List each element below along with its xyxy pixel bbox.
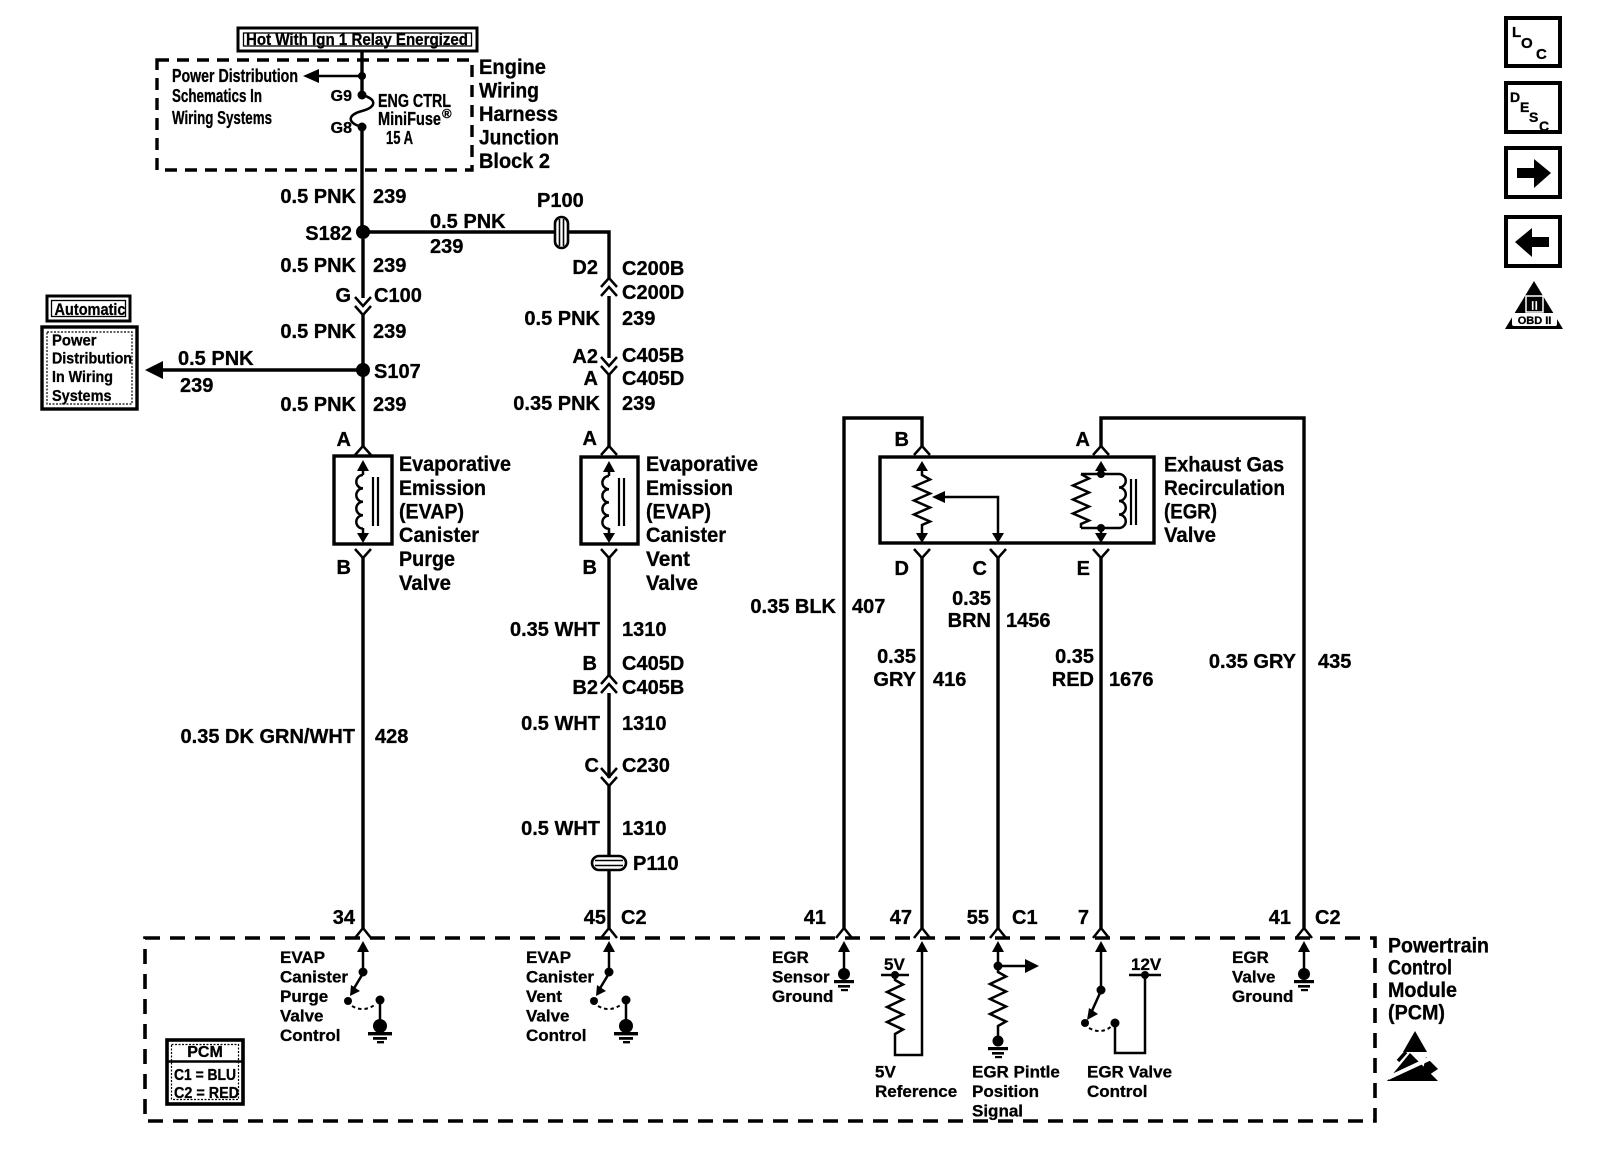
svg-text:1456: 1456 (1006, 610, 1051, 632)
svg-text:Distribution: Distribution (52, 351, 132, 368)
svg-text:A2: A2 (572, 346, 598, 368)
svg-text:0.35 BLK: 0.35 BLK (750, 596, 836, 618)
wire C100 to S107 (361, 315, 364, 370)
svg-text:Vent: Vent (646, 548, 690, 571)
svg-text:34: 34 (333, 907, 356, 929)
svg-text:RED: RED (1052, 669, 1094, 691)
svg-text:®: ® (442, 106, 452, 121)
svg-text:Junction: Junction (479, 127, 559, 150)
svg-text:C405B: C405B (622, 677, 684, 699)
svg-text:239: 239 (430, 236, 463, 258)
wire vent valve B to C405 lower (607, 558, 610, 676)
wire S107 to purge valve (361, 370, 364, 447)
svg-text:Valve: Valve (1164, 524, 1216, 547)
svg-text:E: E (1520, 99, 1529, 115)
label EGR Sensor Ground (772, 948, 833, 1006)
svg-text:239: 239 (373, 394, 406, 416)
svg-text:C1: C1 (1012, 907, 1038, 929)
svg-text:Control: Control (1087, 1082, 1147, 1101)
svg-text:1676: 1676 (1109, 669, 1154, 691)
svg-text:7: 7 (1078, 907, 1089, 929)
svg-text:Exhaust Gas: Exhaust Gas (1164, 454, 1284, 477)
label EVAP Canister Vent Valve Control (526, 948, 594, 1045)
EVAP purge driver switch (344, 968, 376, 1010)
svg-text:0.35 WHT: 0.35 WHT (510, 619, 600, 641)
wire EGR E to PCM pin 7 (1099, 558, 1102, 928)
node G9 (358, 91, 367, 100)
svg-text:OBD II: OBD II (1518, 315, 1552, 327)
svg-text:C405D: C405D (622, 368, 684, 390)
label Powertrain Control Module (PCM) (1388, 935, 1489, 1025)
svg-text:0.5 WHT: 0.5 WHT (521, 713, 600, 735)
box Power Distribution In Wiring Systems (42, 327, 137, 409)
pin chevron B purge valve (355, 549, 371, 558)
EVAP canister vent valve box (581, 457, 638, 544)
svg-text:A: A (337, 429, 351, 451)
svg-text:41: 41 (1269, 907, 1291, 929)
wire C230 to P110 (607, 786, 610, 928)
svg-text:(EVAP): (EVAP) (646, 501, 711, 524)
pin chevron A purge valve (355, 446, 371, 455)
label EVAP Canister Purge Valve Control (280, 948, 348, 1045)
EGR solenoid coil (1073, 461, 1136, 543)
svg-text:Purge: Purge (280, 987, 328, 1006)
svg-text:0.5 PNK: 0.5 PNK (280, 186, 356, 208)
label 0.35 GRY 416 (873, 646, 966, 691)
svg-text:B2: B2 (572, 677, 598, 699)
svg-text:Emission: Emission (646, 477, 733, 500)
label C C230 (585, 755, 670, 777)
wire purge valve B to PCM pin 34 (361, 558, 364, 928)
wire S182 to C100 (361, 239, 364, 298)
svg-text:Canister: Canister (526, 968, 594, 987)
connector C100 double chevron (355, 297, 371, 315)
icon OBD II triangle (1505, 281, 1563, 329)
label EGR Valve Control (1087, 1063, 1172, 1102)
svg-text:0.5 PNK: 0.5 PNK (430, 211, 506, 233)
box Automatic (47, 296, 130, 321)
svg-text:1310: 1310 (622, 818, 667, 840)
pin chevron A EGR (1093, 446, 1109, 455)
label Evaporative Emission (EVAP) Canister Purge Valve (399, 453, 511, 595)
svg-text:Power Distribution: Power Distribution (172, 66, 298, 86)
wire EGR pin B loop to PCM pin 41 (844, 418, 922, 928)
svg-text:0.35: 0.35 (1055, 646, 1094, 668)
svg-text:PCM: PCM (187, 1044, 223, 1061)
svg-text:C2: C2 (1315, 907, 1341, 929)
svg-text:Evaporative: Evaporative (399, 453, 511, 476)
wire C200 to C405 (607, 296, 610, 358)
wire S182 to P100 corner (363, 232, 609, 278)
label 0.5 WHT 1310 lower (521, 818, 666, 840)
svg-text:416: 416 (933, 669, 966, 691)
svg-text:C: C (973, 558, 987, 580)
svg-text:Reference: Reference (875, 1082, 957, 1101)
svg-text:C1 = BLU: C1 = BLU (174, 1067, 236, 1084)
svg-text:15 A: 15 A (386, 128, 413, 148)
svg-text:Control: Control (280, 1026, 340, 1045)
wire branch to power distribution (310, 75, 362, 78)
svg-text:A: A (1076, 429, 1090, 451)
svg-text:Powertrain: Powertrain (1388, 935, 1489, 958)
label Power Distribution Schematics In Wiring Systems (172, 66, 298, 128)
svg-text:0.35 GRY: 0.35 GRY (1209, 651, 1297, 673)
vent valve solenoid coil (602, 461, 624, 543)
svg-text:Engine: Engine (479, 56, 546, 79)
wire EGR D to PCM pin 47 (920, 558, 923, 928)
svg-text:0.5 PNK: 0.5 PNK (280, 255, 356, 277)
svg-text:Power: Power (52, 333, 97, 350)
svg-text:Harness: Harness (479, 103, 558, 126)
label D2 C200B C200D (572, 257, 684, 304)
label 0.5 PNK 239 col2 (524, 308, 655, 330)
svg-text:0.35 PNK: 0.35 PNK (513, 393, 600, 415)
svg-text:Canister: Canister (646, 524, 726, 547)
pin chevron 41 (836, 928, 852, 938)
label 0.5 WHT 1310 upper (521, 713, 666, 735)
label pin 45 C2 (584, 907, 647, 929)
svg-text:0.5 PNK: 0.5 PNK (524, 308, 600, 330)
label 0.35 BLK 407 (750, 596, 885, 618)
svg-text:Sensor: Sensor (772, 968, 830, 987)
svg-text:Ground: Ground (1232, 987, 1293, 1006)
svg-text:0.35: 0.35 (877, 646, 916, 668)
svg-text:C200B: C200B (622, 258, 684, 280)
svg-text:B: B (895, 429, 909, 451)
svg-text:G8: G8 (331, 120, 352, 137)
svg-text:G: G (335, 285, 351, 307)
svg-text:D: D (895, 558, 909, 580)
svg-text:O: O (1521, 35, 1533, 52)
svg-text:B: B (583, 653, 597, 675)
svg-text:MiniFuse: MiniFuse (378, 109, 441, 129)
svg-text:C2: C2 (621, 907, 647, 929)
wire fuse to S182 (360, 127, 363, 232)
svg-text:5V: 5V (875, 1063, 896, 1082)
svg-text:C2 = RED: C2 = RED (174, 1085, 239, 1102)
svg-text:407: 407 (852, 596, 885, 618)
svg-text:0.35 DK GRN/WHT: 0.35 DK GRN/WHT (181, 726, 355, 748)
svg-text:55: 55 (967, 907, 989, 929)
pin chevron 55 (990, 928, 1006, 938)
svg-text:P110: P110 (633, 853, 679, 875)
EGR sensor wiper arm (932, 491, 1004, 543)
EGR pintle signal branch (992, 941, 1039, 973)
svg-text:EGR: EGR (1232, 948, 1269, 967)
svg-text:Purge: Purge (399, 548, 455, 571)
svg-text:1310: 1310 (622, 619, 667, 641)
label B C405D B2 C405B (572, 653, 684, 699)
svg-text:C: C (1536, 46, 1547, 63)
svg-text:A: A (583, 428, 597, 450)
ESD sensitivity symbol (1387, 1031, 1438, 1081)
node S107 (356, 363, 370, 377)
purge valve solenoid coil (356, 460, 378, 543)
label pin 41 C2 (1269, 907, 1341, 929)
EVAP vent driver ground (614, 996, 638, 1044)
arrowhead left (303, 69, 319, 83)
svg-text:Canister: Canister (399, 524, 479, 547)
svg-text:ENG CTRL: ENG CTRL (378, 91, 451, 111)
svg-text:S: S (1529, 109, 1538, 125)
svg-text:239: 239 (373, 186, 406, 208)
pin chevron D EGR (914, 549, 930, 558)
label 0.35 BRN 1456 (948, 588, 1051, 632)
svg-text:239: 239 (180, 375, 213, 397)
EVAP vent driver switch (590, 968, 622, 1010)
connector C405 lower double chevron (601, 675, 617, 693)
EGR valve control 12V feed (1111, 955, 1162, 1053)
svg-text:A: A (584, 368, 598, 390)
svg-text:0.35: 0.35 (952, 588, 991, 610)
dashed box Engine Wiring Harness Junction Block 2 (157, 60, 472, 170)
svg-text:Automatic: Automatic (55, 300, 126, 319)
icon DESC box (1506, 83, 1560, 134)
svg-text:C: C (1539, 118, 1549, 134)
label G C100 (335, 285, 421, 307)
svg-text:BRN: BRN (948, 610, 991, 632)
label 0.35 RED 1676 (1052, 646, 1154, 691)
svg-text:Block 2: Block 2 (479, 150, 550, 173)
svg-text:B: B (337, 557, 351, 579)
EGR position sensor potentiometer (914, 461, 930, 543)
svg-text:P100: P100 (537, 190, 584, 212)
svg-text:Vent: Vent (526, 987, 562, 1006)
wire S107 to power distribution arrow (152, 368, 363, 371)
svg-text:Valve: Valve (526, 1007, 570, 1026)
svg-text:239: 239 (373, 321, 406, 343)
pin chevron 34 (355, 928, 371, 938)
svg-text:435: 435 (1318, 651, 1351, 673)
power label box "Hot With Ign 1 Relay Energized" (238, 28, 477, 51)
EGR pintle pull-down resistor (988, 966, 1008, 1058)
svg-text:47: 47 (890, 907, 912, 929)
svg-text:Control: Control (1388, 957, 1452, 980)
arrowhead left at power distribution (145, 361, 163, 379)
node G8 (358, 123, 367, 132)
svg-text:Wiring Systems: Wiring Systems (172, 108, 272, 128)
svg-text:Control: Control (526, 1026, 586, 1045)
svg-text:C: C (585, 755, 599, 777)
svg-text:GRY: GRY (873, 669, 916, 691)
EGR valve ground symbol (1294, 941, 1314, 991)
node S182 (356, 225, 370, 239)
pin chevron 41 C2 (1296, 928, 1312, 938)
svg-text:Valve: Valve (399, 572, 451, 595)
svg-text:Signal: Signal (972, 1102, 1023, 1121)
label 0.5 PNK 239 row3 (280, 321, 406, 343)
connector C405 upper double chevron (601, 357, 617, 375)
svg-text:0.5 PNK: 0.5 PNK (280, 394, 356, 416)
pin chevron C EGR (990, 549, 1006, 558)
pin chevron B vent valve (601, 549, 617, 558)
svg-text:239: 239 (622, 393, 655, 415)
svg-text:S107: S107 (374, 361, 421, 383)
fuse ENG CTRL MiniFuse 15A (351, 95, 374, 127)
wire EGR C to PCM pin 55 (996, 558, 999, 928)
wire C405 lower to C230 (607, 693, 610, 778)
svg-text:D: D (1510, 89, 1520, 105)
svg-text:Systems: Systems (52, 388, 112, 405)
svg-text:0.5 WHT: 0.5 WHT (521, 818, 600, 840)
label pin 55 C1 (967, 907, 1038, 929)
svg-text:Schematics In: Schematics In (172, 86, 262, 106)
pin chevron E EGR (1093, 549, 1109, 558)
svg-text:0.5 PNK: 0.5 PNK (178, 348, 254, 370)
svg-text:C200D: C200D (622, 282, 684, 304)
svg-text:EGR Pintle: EGR Pintle (972, 1063, 1060, 1082)
svg-text:(EGR): (EGR) (1164, 501, 1217, 524)
EGR valve control driver switch (1081, 986, 1112, 1032)
wire EGR pin A loop to PCM pin 41 C2 (1101, 418, 1304, 928)
label 0.5 PNK 239 row1 (280, 186, 406, 208)
EVAP purge driver ground (368, 996, 392, 1044)
EVAP vent driver arrow (603, 941, 615, 969)
svg-text:0.5 PNK: 0.5 PNK (280, 321, 356, 343)
svg-text:II: II (1531, 298, 1538, 313)
pin chevron B EGR (914, 446, 930, 455)
label EGR Valve Ground (1232, 948, 1293, 1006)
label ENG CTRL MiniFuse 15 A (378, 91, 452, 148)
EGR valve control driver arrow (1095, 941, 1107, 988)
svg-text:1310: 1310 (622, 713, 667, 735)
svg-text:L: L (1512, 24, 1521, 41)
connector P110 capsule (592, 856, 626, 870)
label 0.5 PNK 239 row2 (280, 255, 406, 277)
label 5V Reference (875, 1063, 957, 1102)
connector C230 double chevron (601, 768, 617, 786)
label Evaporative Emission (EVAP) Canister Vent Valve (646, 453, 758, 595)
wire C405 to vent valve (607, 375, 610, 447)
label 0.35 GRY 435 (1209, 651, 1351, 673)
svg-text:Emission: Emission (399, 477, 486, 500)
label A2 C405B A C405D (572, 345, 684, 390)
svg-text:239: 239 (373, 255, 406, 277)
svg-text:S182: S182 (305, 223, 352, 245)
label EGR Pintle Position Signal (972, 1063, 1060, 1121)
svg-text:Valve: Valve (280, 1007, 324, 1026)
svg-text:G9: G9 (331, 88, 352, 105)
svg-text:(EVAP): (EVAP) (399, 501, 464, 524)
svg-text:Canister: Canister (280, 968, 348, 987)
svg-text:12V: 12V (1131, 955, 1162, 974)
pin chevron 7 (1093, 928, 1109, 938)
svg-text:Module: Module (1388, 979, 1457, 1002)
label 0.5 PNK 239 row4 (280, 394, 406, 416)
connector P100 capsule (555, 217, 568, 248)
svg-text:239: 239 (622, 308, 655, 330)
svg-text:Ground: Ground (772, 987, 833, 1006)
wire from Hot box to junction block (360, 51, 363, 93)
svg-text:E: E (1077, 558, 1090, 580)
svg-text:Wiring: Wiring (479, 80, 539, 103)
svg-text:41: 41 (804, 907, 826, 929)
svg-text:Valve: Valve (1232, 968, 1276, 987)
node at branch (358, 72, 366, 80)
icon back arrow box (1506, 217, 1560, 266)
svg-text:EGR: EGR (772, 948, 809, 967)
EGR sensor ground symbol (834, 941, 854, 991)
label Engine Wiring Harness Junction Block 2 (479, 56, 559, 173)
EGR valve box (880, 457, 1154, 543)
PCM connector legend box (167, 1040, 243, 1104)
svg-text:(PCM): (PCM) (1388, 1002, 1445, 1025)
label Exhaust Gas Recirculation (EGR) Valve (1164, 454, 1285, 548)
svg-text:428: 428 (375, 726, 408, 748)
pin chevron A vent valve (601, 446, 617, 455)
EVAP canister purge valve box (334, 456, 392, 544)
icon LOC box (1506, 18, 1560, 66)
svg-text:Recirculation: Recirculation (1164, 477, 1285, 500)
svg-text:D2: D2 (572, 257, 598, 279)
5V reference resistor (881, 941, 928, 1055)
svg-text:C100: C100 (374, 285, 422, 307)
label 0.35 DK GRN/WHT 428 (181, 726, 409, 748)
pin chevron 45 (601, 928, 617, 938)
label 0.35 WHT 1310 (510, 619, 667, 641)
icon forward arrow box (1506, 148, 1560, 197)
pin chevron 47 (914, 928, 930, 938)
svg-text:C230: C230 (622, 755, 670, 777)
svg-text:Valve: Valve (646, 572, 698, 595)
svg-text:45: 45 (584, 907, 606, 929)
svg-text:EVAP: EVAP (526, 948, 571, 967)
svg-text:EVAP: EVAP (280, 948, 325, 967)
connector C200 double chevron (601, 278, 617, 296)
svg-text:Hot With Ign 1 Relay Energized: Hot With Ign 1 Relay Energized (246, 30, 468, 49)
svg-text:C405D: C405D (622, 653, 684, 675)
EVAP purge driver arrow (357, 941, 369, 969)
label 0.35 PNK 239 col2 (513, 393, 655, 415)
svg-text:Evaporative: Evaporative (646, 453, 758, 476)
svg-text:Position: Position (972, 1082, 1039, 1101)
PCM dashed box (145, 938, 1375, 1121)
svg-text:B: B (583, 557, 597, 579)
svg-text:EGR Valve: EGR Valve (1087, 1063, 1172, 1082)
svg-text:In Wiring: In Wiring (52, 369, 113, 386)
svg-text:C405B: C405B (622, 345, 684, 367)
